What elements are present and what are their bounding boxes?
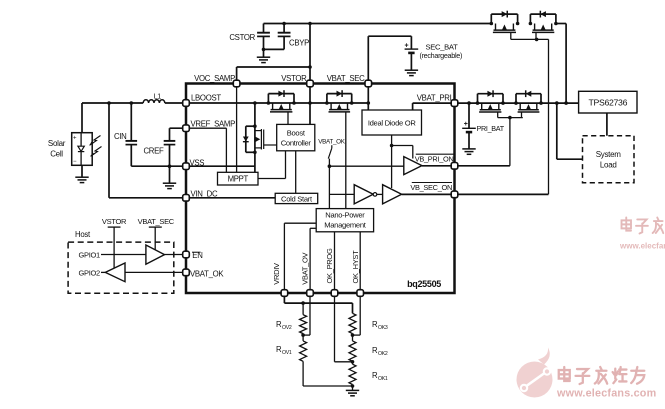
svg-text:VB_SEC_ON: VB_SEC_ON [410, 183, 452, 192]
inductor L1 [143, 100, 165, 103]
wire nano to OK_PROG [334, 232, 336, 290]
wire to solar cell [81, 103, 83, 133]
svg-text:VSS: VSS [190, 158, 205, 167]
wire ROK2 top lead [352, 335, 354, 341]
overline VB_PRI_ON [416, 153, 454, 155]
bar VBAT_SEC tap [149, 226, 162, 228]
svg-text:OK2: OK2 [378, 351, 388, 357]
junction VOC_SAMP/VSTOR [308, 65, 312, 69]
wire VSTOR vertical [309, 24, 311, 81]
wire MPPT to controller [258, 178, 286, 180]
wire VOC_SAMP stub [236, 67, 238, 80]
ground PRI_BAT [462, 148, 475, 150]
transistor P1 pri switch [478, 93, 504, 95]
transistor T1 sec switch [491, 13, 517, 15]
wire VB_SEC_ON out [402, 193, 452, 195]
pin VREF_SAMP [183, 125, 190, 132]
junction ROV1/ROV2 [301, 333, 305, 337]
buffer EN driver [146, 245, 165, 264]
ground VSS [163, 182, 176, 184]
wire ROK3 bottom lead [352, 334, 354, 336]
svg-text:VBAT_OK: VBAT_OK [318, 138, 346, 145]
watermark text elecfans right [622, 218, 665, 234]
svg-text:OK_HYST: OK_HYST [351, 250, 360, 284]
wire VSTOR to boost controller [309, 103, 311, 124]
svg-text:VBAT_SEC: VBAT_SEC [138, 217, 175, 226]
transistor P2 pri switch [516, 93, 541, 95]
junction ROK2/ROK1 [351, 360, 355, 364]
wire VBAT_PRI rail [458, 102, 579, 104]
svg-text:VSTOR: VSTOR [102, 217, 127, 226]
svg-text:PRI_BAT: PRI_BAT [477, 124, 505, 133]
pin VOC_SAMP [233, 80, 240, 87]
wire to SEC buffer top [391, 146, 393, 189]
wire VREF_SAMP internal [186, 127, 226, 129]
wire FET2 gate to nano-power [345, 112, 347, 209]
resistor ROV1 [300, 341, 307, 361]
junction VSTOR/rail [308, 101, 312, 105]
wire divider top rail [284, 302, 352, 304]
wire VBAT_SEC pin to rail [367, 87, 369, 103]
wire to PRI buffer input [329, 165, 403, 167]
bar VSTOR tap [108, 226, 121, 228]
box Boost Controller [277, 124, 315, 150]
transistor FET0 rectifier [254, 126, 256, 152]
wire OK_PROG stub [334, 297, 336, 362]
wire VOC_SAMP horizontal [237, 66, 310, 68]
wire OK_HYST tap [353, 334, 361, 336]
wire VREF to MPPT [225, 128, 227, 172]
wire P1 gate lead [497, 112, 499, 118]
junction CIN [130, 101, 134, 105]
pin VB_PRI_ON [451, 163, 458, 170]
pin VBAT_SEC [365, 80, 372, 87]
battery SEC_BAT [410, 36, 412, 49]
wire bottom rail [303, 385, 352, 387]
wire inverter to buffer [377, 193, 383, 195]
wire ROV2 top lead [302, 303, 304, 315]
resistor ROK2 [349, 341, 356, 361]
junction ground node [351, 384, 355, 388]
svg-text:Management: Management [324, 221, 367, 230]
svg-text:GPIO1: GPIO1 [79, 250, 101, 259]
buffer VB_PRI_ON driver [404, 157, 422, 175]
svg-text:TPS62736: TPS62736 [588, 97, 627, 107]
wire VB_PRI_ON out [422, 165, 451, 167]
wire VSTOR host down [113, 227, 115, 268]
svg-text:VREF_SAMP: VREF_SAMP [191, 120, 236, 129]
junction VIN branch [107, 101, 111, 105]
wire nano to OK_HYST [359, 232, 361, 290]
wire VBAT_PRI internal [413, 102, 455, 104]
svg-text:Cold Start: Cold Start [281, 194, 313, 203]
box MPPT [218, 172, 259, 185]
wire P2 gate lead [521, 112, 523, 118]
svg-text:OK1: OK1 [378, 376, 388, 382]
wire VB_SEC_ON external [458, 193, 549, 195]
svg-text:VBAT_OK: VBAT_OK [190, 269, 224, 278]
resistor ROK1 [349, 364, 356, 384]
ground divider [346, 389, 359, 391]
svg-text:VSTOR: VSTOR [281, 74, 307, 83]
wire VBAT_OV tap [303, 334, 310, 336]
buffer VB_SEC_ON stage2 [383, 185, 402, 204]
wire to PRI buffer top [392, 145, 413, 147]
junction PRI_BAT [467, 101, 471, 105]
photodiode solar [78, 146, 84, 151]
overline VB_SEC_ON [412, 182, 452, 184]
wire ideal diode output [391, 135, 393, 146]
svg-text:Host: Host [75, 230, 91, 239]
svg-text:GPIO2: GPIO2 [79, 268, 101, 277]
box System Load [583, 136, 635, 183]
wire VBAT_PRI to ideal diode [412, 103, 414, 110]
wire ROV1 to ground rail [302, 361, 304, 386]
wire VSS internal [186, 165, 255, 167]
wire VBAT_OV stub [309, 297, 311, 336]
wire to ground stem [263, 49, 265, 57]
wire L1 to LBOOST [165, 102, 186, 104]
junction VBAT_OK/PRI buffer [328, 164, 332, 168]
svg-text:VB_PRI_ON: VB_PRI_ON [415, 154, 454, 163]
watermark text elecfans bottom [559, 367, 645, 384]
wire FET1 gate to controller [287, 112, 289, 125]
pin VIN_DC [183, 195, 190, 202]
wire T pair to right [556, 23, 566, 25]
wire to SEC_BAT [368, 35, 411, 37]
wire OK_PROG tap [335, 361, 353, 363]
svg-text:CIN: CIN [114, 132, 127, 141]
junction T gate [535, 38, 539, 42]
wire controller to cold start [295, 151, 297, 194]
pin VRDIV [281, 290, 288, 297]
wire VSTOR top rail [264, 23, 492, 25]
svg-text:Boost: Boost [287, 128, 306, 137]
wire VOC_SAMP to MPPT [236, 86, 238, 172]
switch VBAT_OK [331, 145, 333, 148]
wire VSS horizontal [131, 165, 186, 167]
pin OK_PROG [331, 290, 338, 297]
svg-text:CBYP: CBYP [289, 39, 309, 48]
junction ideal diode out [390, 144, 394, 148]
junction CREF/VSS [168, 164, 172, 168]
transistor FET1 boost [268, 93, 294, 95]
battery PRI_BAT [468, 103, 470, 128]
wire down to VBAT_PRI rail [565, 24, 567, 104]
svg-text:Ideal Diode OR: Ideal Diode OR [368, 118, 417, 127]
wire GPIO1 to buffer [101, 254, 146, 256]
wire nano to VBAT_OV [310, 227, 316, 229]
capacitor CBYP [283, 24, 285, 33]
wire VBAT_SEC host down [154, 227, 156, 250]
junction ROK3/ROK2 [351, 333, 355, 337]
svg-text:OK_PROG: OK_PROG [325, 248, 334, 283]
wire to system load [556, 103, 558, 159]
svg-text:System: System [596, 150, 622, 159]
svg-text:www.elecfans.com: www.elecfans.com [556, 388, 656, 400]
pin VB_SEC_ON [451, 191, 458, 198]
svg-text:VBAT_SEC: VBAT_SEC [327, 74, 365, 83]
wire VBAT_OK signal down [328, 159, 330, 209]
wire T2 gate lead [535, 32, 537, 39]
wire P gates [498, 117, 523, 119]
transistor FET2 charger [327, 93, 352, 95]
wire FET0 to MPPT [254, 152, 256, 172]
junction CSTOR bottom [262, 48, 266, 52]
pin OK_HYST [357, 290, 364, 297]
svg-text:Solar: Solar [48, 139, 66, 148]
wire VB_PRI_ON external [458, 165, 510, 167]
junction system load branch [555, 101, 559, 105]
photodiode cathode lead [80, 152, 82, 166]
wire ROK1 top lead [352, 362, 354, 364]
wire P gate to VB_PRI_ON [509, 118, 511, 166]
wire VB_SEC_ON riser [548, 39, 550, 194]
wire CBYP bottom to CSTOR [264, 48, 285, 50]
svg-text:Nano-Power: Nano-Power [325, 211, 365, 220]
junction P gate [508, 116, 512, 120]
svg-text:Cell: Cell [50, 150, 63, 159]
wire TPS to system load [606, 113, 608, 136]
pin EN [183, 251, 190, 258]
svg-text:+: + [464, 121, 468, 128]
svg-text:Load: Load [600, 161, 617, 170]
pin VSS [183, 163, 190, 170]
wire solar to ground [81, 165, 83, 177]
pin VBAT_OV [307, 290, 314, 297]
photodiode anode lead [80, 133, 82, 147]
wire solar top node [82, 102, 143, 104]
box Cold Start [275, 193, 318, 203]
svg-text:VBAT_PRI: VBAT_PRI [417, 93, 452, 102]
wire nano to VRDIV [284, 222, 316, 224]
box Ideal Diode OR [362, 110, 422, 135]
pin VSTOR [307, 80, 314, 87]
junction VSTOR/top rail [308, 22, 312, 26]
wire VIN_DC horizontal [109, 197, 186, 199]
ground solar cell [75, 176, 88, 178]
svg-text:+: + [405, 43, 409, 50]
svg-text:VBAT_OV: VBAT_OV [301, 252, 310, 284]
inverter GPIO2 driver [105, 263, 125, 282]
inverter VB_SEC_ON stage1 [354, 185, 373, 204]
wire down to FET0 [254, 103, 256, 126]
svg-text:(rechargeable): (rechargeable) [420, 51, 463, 60]
junction ROV2 top [301, 301, 305, 305]
wire ROK3 top lead [352, 303, 354, 313]
junction T pair drop [564, 101, 568, 105]
wire OK_HYST stub [359, 297, 361, 336]
junction VBAT_SEC tap [367, 101, 371, 105]
wire VSTOR pin to rail [309, 87, 311, 103]
wire GPIO2 to inverter [101, 271, 105, 273]
box Host dashed [68, 242, 174, 293]
wire VSS to ground [169, 166, 171, 183]
svg-text:CREF: CREF [143, 147, 164, 156]
overline EN [192, 251, 201, 253]
wire VIN_DC vertical [108, 103, 110, 198]
wire T1 gate lead [510, 32, 512, 39]
svg-text:OK3: OK3 [378, 325, 388, 331]
ground CSTOR [257, 56, 270, 58]
capacitor CIN [130, 103, 132, 141]
solar cell box [72, 133, 93, 166]
light arrows solar [90, 136, 101, 146]
svg-text:bq25505: bq25505 [407, 279, 441, 289]
wire to SEC inverter input [329, 193, 354, 195]
capacitor CSTOR [263, 24, 265, 33]
svg-text:OV2: OV2 [282, 325, 292, 331]
svg-text:VRDIV: VRDIV [272, 263, 281, 285]
svg-text:MPPT: MPPT [228, 175, 249, 184]
wire VIN_DC internal to cold start [186, 197, 275, 199]
svg-text:VIN_DC: VIN_DC [191, 189, 218, 198]
wire T gates [511, 38, 549, 40]
wire internal LBOOST rail [186, 102, 368, 104]
box TPS62736 [579, 91, 637, 113]
pin LBOOST [183, 100, 190, 107]
wire VRDIV stub [283, 297, 285, 304]
watermark logo elecfans [517, 348, 553, 398]
resistor ROK3 [349, 313, 356, 333]
junction CBYP/top rail [282, 22, 286, 26]
wire FET0 gate to boost controller [264, 144, 277, 146]
svg-text:CSTOR: CSTOR [229, 33, 255, 42]
ground SEC_BAT [405, 69, 418, 71]
junction rectifier branch [253, 101, 257, 105]
wire VREF_SAMP to pin [170, 127, 187, 129]
wire VBAT_SEC to ideal diode [367, 103, 369, 110]
pin VBAT_PRI [451, 100, 458, 107]
box Nano-Power Management [316, 209, 373, 232]
capacitor CREF [169, 128, 171, 141]
svg-text:L1: L1 [154, 93, 162, 100]
svg-text:VOC_SAMP: VOC_SAMP [194, 74, 235, 83]
svg-text:OV1: OV1 [282, 350, 292, 356]
IC U1 bq25505 outline [186, 84, 455, 294]
wire VBAT_SEC up [367, 36, 369, 80]
resistor ROV2 [300, 315, 307, 334]
wire ROV1 top lead [302, 335, 304, 341]
pin VBAT_OK [183, 269, 190, 276]
wire buffer to EN pin [165, 254, 183, 256]
svg-text:www.elecfans.com: www.elecfans.com [619, 242, 665, 251]
transistor T2 sec switch [530, 13, 556, 15]
wire VBAT_OK to inverter [125, 271, 183, 273]
svg-text:Controller: Controller [281, 138, 312, 147]
svg-text:LBOOST: LBOOST [191, 94, 221, 103]
